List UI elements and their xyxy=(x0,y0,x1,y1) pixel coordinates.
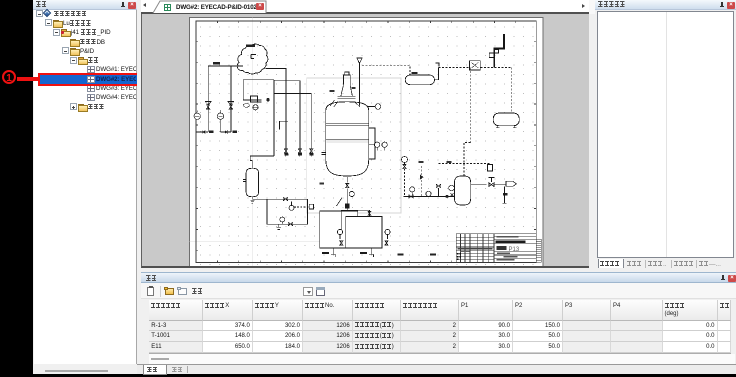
title block xyxy=(456,234,536,262)
vessel E11 xyxy=(455,176,471,205)
reactor outlet xyxy=(346,177,348,183)
dome instrument xyxy=(367,106,375,108)
jacket pipe xyxy=(369,128,375,159)
feed elbows xyxy=(266,69,312,149)
svg-text:P13: P13 xyxy=(509,247,520,253)
E11 feed xyxy=(403,195,454,197)
recycle line xyxy=(464,67,471,163)
accumulator drum xyxy=(511,67,513,113)
drain loop xyxy=(252,199,307,224)
condenser drum xyxy=(362,65,410,75)
branch valves xyxy=(206,105,209,109)
N2 header line xyxy=(208,65,243,67)
drain connectors xyxy=(196,131,231,133)
tank 2 xyxy=(346,217,382,249)
off-page flag xyxy=(506,181,516,186)
drawing frame xyxy=(196,21,536,263)
instrument circles PI xyxy=(194,113,200,119)
agitator neck xyxy=(338,75,356,98)
tank T-1001 xyxy=(320,211,358,248)
knockout pot xyxy=(246,168,259,196)
N2 branch pipes xyxy=(208,66,231,132)
cloud (utility boundary) xyxy=(237,34,519,257)
tank bottom fittings xyxy=(322,252,329,254)
level instruments xyxy=(369,144,375,146)
misc labels xyxy=(280,121,289,129)
tank instruments xyxy=(337,229,342,234)
heavy pipe xyxy=(494,34,504,67)
reactor R-1-3 xyxy=(326,102,369,176)
paper sheet xyxy=(190,18,544,270)
pipe box xyxy=(243,80,274,156)
vent funnel xyxy=(357,58,362,106)
guide lines xyxy=(190,18,544,267)
